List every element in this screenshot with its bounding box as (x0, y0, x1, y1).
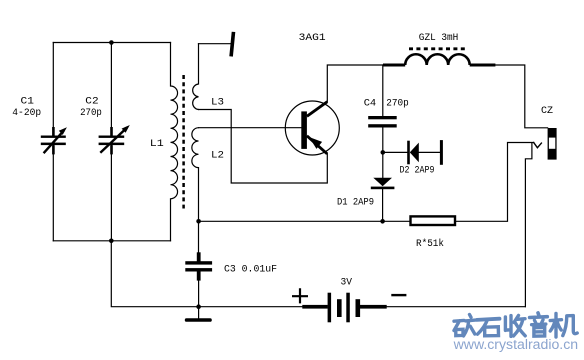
svg-text:C1: C1 (21, 95, 34, 107)
svg-text:C4: C4 (364, 97, 377, 109)
svg-text:3AG1: 3AG1 (299, 32, 326, 44)
svg-text:270p: 270p (80, 107, 102, 119)
svg-text:3V: 3V (341, 277, 353, 289)
svg-text:www.crystalradio.cn: www.crystalradio.cn (453, 337, 579, 352)
svg-text:L2: L2 (211, 150, 224, 162)
svg-text:C2: C2 (85, 95, 98, 107)
svg-text:D1 2AP9: D1 2AP9 (337, 197, 374, 209)
svg-text:C3 0.01uF: C3 0.01uF (224, 263, 277, 275)
svg-text:R*51k: R*51k (416, 238, 444, 250)
svg-text:270p: 270p (386, 97, 409, 109)
svg-text:L1: L1 (150, 138, 164, 150)
svg-text:GZL 3mH: GZL 3mH (419, 32, 459, 44)
svg-text:D2 2AP9: D2 2AP9 (400, 165, 435, 177)
svg-text:CZ: CZ (541, 105, 553, 117)
svg-text:L3: L3 (211, 97, 224, 109)
svg-text:4-20p: 4-20p (12, 107, 41, 119)
